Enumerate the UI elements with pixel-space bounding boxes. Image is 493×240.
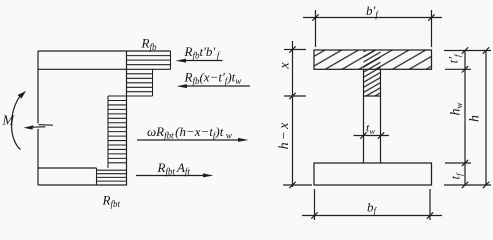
stress block 2: web compression (hatched) [127, 69, 153, 96]
svg-text:h−x: h−x [277, 121, 292, 150]
svg-text:bf: bf [367, 200, 378, 217]
svg-text:h: h [468, 115, 483, 122]
svg-text:M: M [2, 114, 16, 129]
svg-text:b′f: b′f [366, 3, 379, 20]
force arrow 2 (left): Rfb(x-t'f)tw [177, 84, 251, 88]
svg-text:tf: tf [448, 172, 465, 180]
I-beam bottom flange [314, 163, 432, 185]
tw measure line across web [354, 132, 390, 138]
I-beam web left edge [363, 69, 365, 163]
stress block 4: flange tension (hatched) [97, 168, 127, 185]
svg-text:hw: hw [449, 102, 465, 115]
stress zero-axis vertical [126, 51, 128, 185]
I-beam web upper hatched zone [364, 51, 381, 96]
break symbol with small left arrow [24, 125, 54, 130]
svg-text:tw: tw [366, 121, 375, 137]
left edge vertical line (upper) [37, 51, 39, 124]
dimension bf bottom: line [302, 189, 442, 220]
left dimension line (x and h-x) [283, 41, 312, 188]
I-beam web right edge [380, 69, 382, 163]
right outer dimension line (h) [483, 47, 489, 188]
force arrow 1 (left): Rfb t'f b'f [176, 59, 223, 63]
stress diagram bottom line [38, 184, 127, 186]
stress diagram top line [38, 50, 171, 52]
svg-text:RfbtAft: RfbtAft [157, 160, 191, 177]
stress block 1: flange compression (hatched) [127, 51, 171, 69]
I-beam top flange (hatched) [314, 50, 432, 69]
moment arc arrow [11, 91, 26, 150]
right inner dimension line (t'f, hw, tf) [444, 47, 491, 188]
neutral axis line across web [364, 95, 381, 97]
svg-text:Rfbt′b′f: Rfbt′b′f [184, 44, 221, 61]
force arrow 4 (right): Rfbt Aft [136, 173, 214, 177]
tension flange top line [38, 167, 97, 169]
dimension b'f top: line [303, 10, 442, 47]
svg-text:t′f: t′f [446, 53, 463, 63]
compression flange bottom line [38, 68, 127, 70]
left edge vertical line (lower) [37, 129, 39, 185]
svg-text:x: x [278, 62, 293, 70]
stress block 3: web tension (hatched) [108, 96, 127, 168]
svg-text:Rfb: Rfb [141, 36, 157, 53]
svg-text:Rfb(x−t′f)tw: Rfb(x−t′f)tw [184, 70, 242, 87]
svg-text:ωRfbt(h−x−tf)tw: ωRfbt(h−x−tf)tw [147, 124, 232, 141]
force arrow 3 (right): omega Rfbt(h-x-tf)tw [137, 138, 249, 142]
svg-text:Rfbt: Rfbt [102, 193, 121, 210]
